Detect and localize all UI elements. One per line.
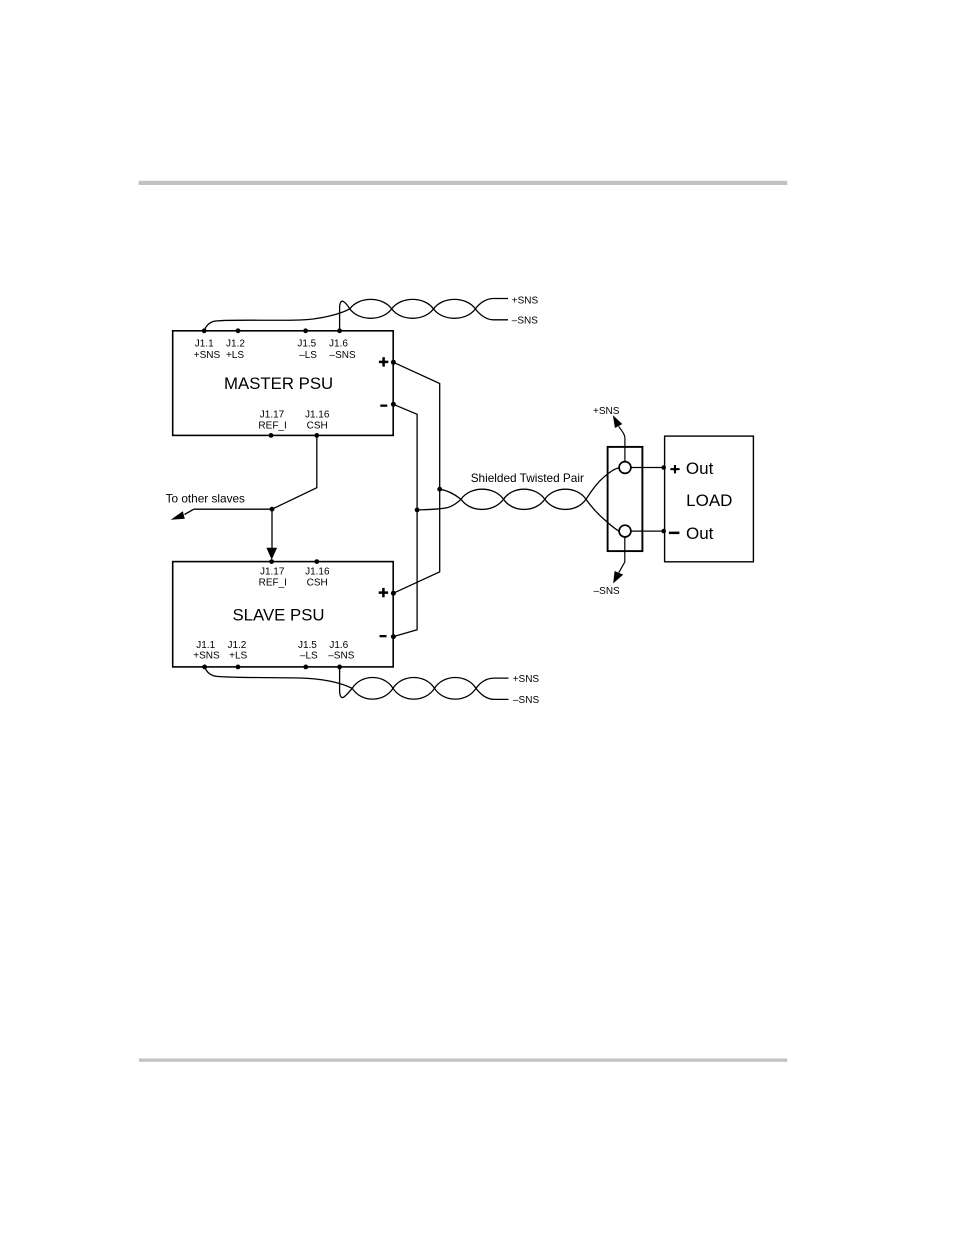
wire: slave J1.6 to bottom twisted pair (loop) (340, 667, 353, 698)
wire: -SNS sense arrow at terminal (613, 537, 625, 583)
svg-text:J1.17: J1.17 (260, 410, 285, 421)
twisted pair top: wire B (to +SNS) (350, 299, 508, 319)
node - Out (661, 529, 666, 534)
svg-text:Shielded Twisted Pair: Shielded Twisted Pair (471, 471, 584, 485)
twisted pair bottom: wire A (to -SNS) (352, 678, 508, 700)
wire: master + output to slave + (vertical bus A) (393, 362, 439, 593)
svg-text:REF_I: REF_I (258, 420, 286, 431)
svg-text:+SNS: +SNS (593, 406, 620, 417)
twisted pair top: wire A (to -SNS) (350, 299, 508, 319)
pin J1.5 -LS (slave) (298, 640, 318, 669)
svg-text:Out: Out (686, 459, 714, 478)
svg-text:J1.2: J1.2 (226, 339, 245, 350)
wire: master - output to slave - (vertical bus B) (393, 404, 417, 636)
svg-text:–LS: –LS (300, 651, 318, 662)
svg-text:CSH: CSH (307, 420, 328, 431)
terminal + (slave output) (379, 588, 396, 597)
svg-text:J1.6: J1.6 (329, 640, 348, 651)
terminal - (slave output) (380, 634, 396, 639)
svg-text:–SNS: –SNS (513, 695, 539, 706)
wire: master CSH down to junction (272, 435, 317, 509)
wire: + terminal to LOAD (631, 467, 664, 469)
pin J1.1 +SNS (master) (194, 328, 221, 361)
pin J1.17 REF_I (master) (258, 410, 286, 438)
pin J1.16 CSH (master) (305, 410, 330, 438)
svg-text:J1.6: J1.6 (329, 339, 348, 350)
wire: +SNS sense arrow at terminal (613, 415, 625, 462)
svg-text:REF_I: REF_I (259, 577, 287, 588)
junction: twisted pair tap on bus A (437, 487, 442, 492)
svg-text:–SNS: –SNS (328, 651, 354, 662)
svg-text:J1.5: J1.5 (298, 640, 317, 651)
pin J1.17 REF_I (slave) (259, 559, 287, 588)
svg-text:+LS: +LS (226, 350, 244, 361)
svg-text:J1.5: J1.5 (297, 339, 316, 350)
svg-text:+SNS: +SNS (194, 350, 221, 361)
junction (CSH bus) (270, 507, 275, 512)
wire: master J1.6 to top twisted pair (loop) (340, 301, 350, 330)
pin J1.5 -LS (master) (297, 328, 317, 361)
terminal screw + (619, 462, 631, 474)
svg-text:J1.1: J1.1 (195, 339, 214, 350)
pin J1.2 +LS (master) (226, 328, 245, 361)
pin J1.2 +LS (slave) (227, 640, 247, 669)
svg-text:J1.1: J1.1 (196, 640, 215, 651)
svg-text:+SNS: +SNS (193, 651, 220, 662)
twisted pair bottom: wire B (to +SNS) (352, 678, 508, 700)
pin J1.6 -SNS (slave) (328, 640, 354, 669)
terminal + (master output) (379, 357, 396, 366)
svg-text:Out: Out (686, 524, 714, 543)
svg-text:J1.16: J1.16 (305, 567, 330, 578)
master PSU (173, 331, 394, 436)
terminal block (608, 447, 643, 551)
svg-text:J1.17: J1.17 (260, 567, 285, 578)
junction: twisted pair tap on bus B (415, 508, 420, 513)
svg-text:–SNS: –SNS (594, 586, 620, 597)
svg-text:+SNS: +SNS (513, 674, 540, 685)
wire: slave J1.1 to bottom twisted pair (205, 667, 353, 688)
wire: master J1.1 to top twisted pair (204, 309, 350, 331)
terminal - (master output) (380, 402, 396, 407)
svg-text:MASTER PSU: MASTER PSU (224, 374, 333, 393)
svg-text:+LS: +LS (229, 651, 247, 662)
pin J1.6 -SNS (master) (329, 328, 356, 361)
svg-text:J1.2: J1.2 (227, 640, 246, 651)
svg-text:–LS: –LS (299, 350, 317, 361)
label - Out (669, 524, 714, 543)
twisted pair middle: wire B (bus B to - terminal) (417, 489, 619, 531)
terminal screw - (619, 525, 631, 537)
svg-text:–SNS: –SNS (512, 315, 538, 326)
svg-text:–SNS: –SNS (330, 350, 356, 361)
svg-text:SLAVE PSU: SLAVE PSU (232, 606, 324, 625)
label + Out (670, 459, 713, 478)
svg-text:To other slaves: To other slaves (166, 492, 245, 506)
pin J1.16 CSH (slave) (305, 559, 330, 588)
wire: junction to other slaves (horizontal) (194, 508, 272, 510)
svg-text:J1.16: J1.16 (305, 410, 330, 421)
pin J1.1 +SNS (slave) (193, 640, 220, 669)
slave PSU (173, 562, 394, 667)
wire: - terminal to LOAD (631, 530, 664, 532)
svg-text:CSH: CSH (307, 577, 328, 588)
wire: junction down to slave J1.17 (arrow) (266, 509, 277, 560)
node + Out (661, 465, 666, 470)
svg-text:LOAD: LOAD (686, 491, 732, 510)
twisted pair middle: wire A (bus A to + terminal) (440, 468, 620, 510)
arrow: to other slaves (171, 509, 194, 520)
load box (665, 436, 754, 562)
svg-text:+SNS: +SNS (512, 295, 539, 306)
